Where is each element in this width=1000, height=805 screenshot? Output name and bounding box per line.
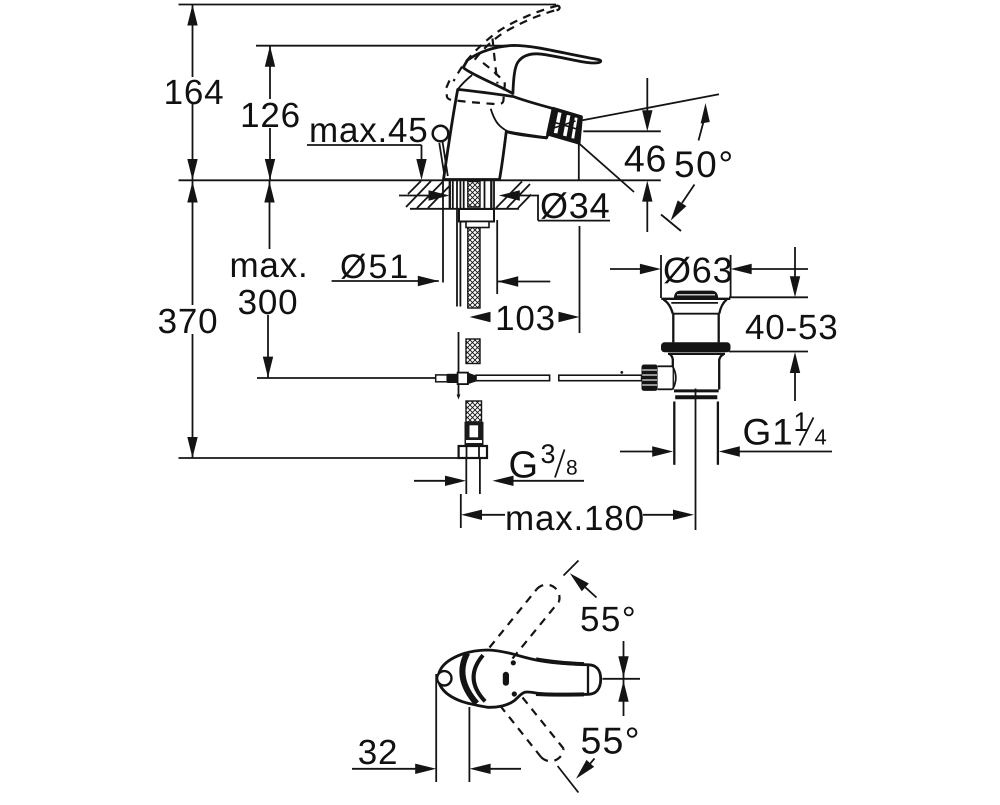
svg-text:40-53: 40-53 [745, 308, 839, 347]
svg-text:164: 164 [164, 73, 225, 112]
svg-text:3: 3 [541, 439, 557, 469]
svg-text:Ø63: Ø63 [663, 250, 733, 291]
svg-text:55°: 55° [580, 600, 637, 639]
svg-text:126: 126 [240, 96, 301, 135]
svg-text:103: 103 [495, 299, 556, 338]
svg-text:370: 370 [158, 302, 219, 341]
svg-text:55°: 55° [581, 720, 641, 762]
svg-text:max.: max. [229, 246, 308, 285]
svg-text:300: 300 [238, 283, 299, 322]
svg-text:8: 8 [566, 457, 578, 480]
svg-text:max.45: max.45 [309, 111, 429, 150]
svg-text:max.180: max.180 [505, 499, 645, 538]
svg-text:50°: 50° [674, 144, 735, 185]
svg-text:46: 46 [624, 138, 667, 180]
svg-text:32: 32 [358, 733, 399, 772]
svg-text:4: 4 [815, 425, 828, 450]
svg-text:G1: G1 [743, 412, 794, 453]
